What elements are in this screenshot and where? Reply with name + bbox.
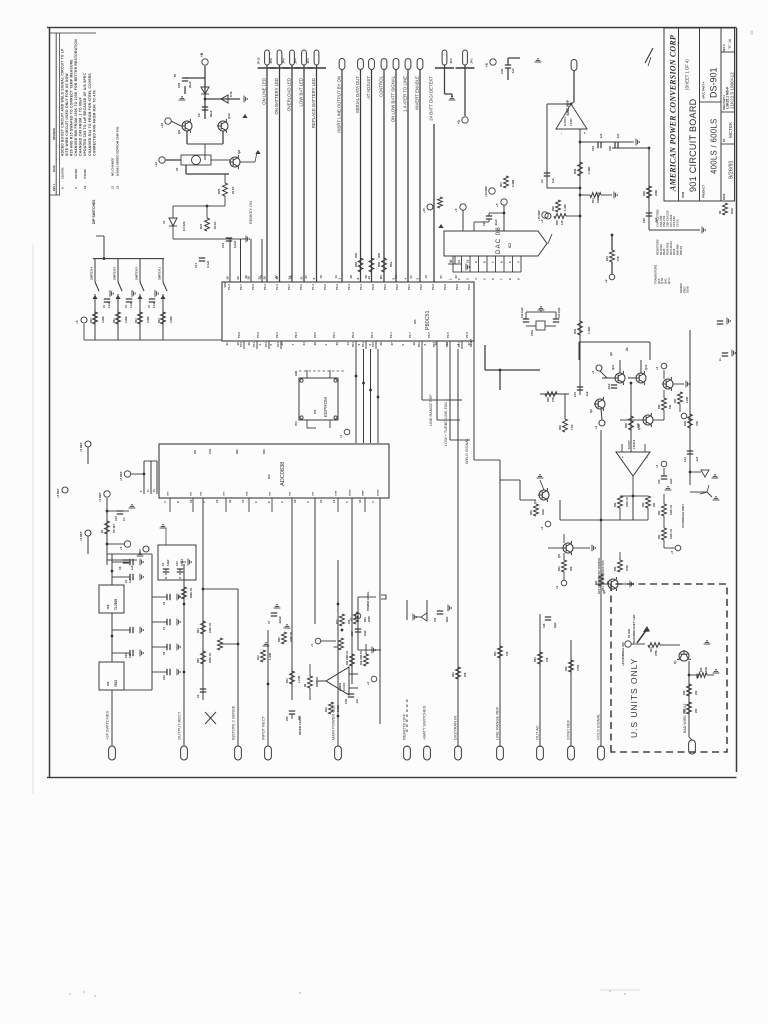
svg-text:VREF: VREF: [363, 490, 365, 496]
svg-text:3/27/90: 3/27/90: [74, 169, 78, 179]
svg-text:EEPROM: EEPROM: [323, 397, 328, 417]
svg-text:BY: BY: [723, 138, 726, 142]
svg-text:36: 36: [289, 275, 293, 279]
svg-text:.01uF: .01uF: [494, 219, 498, 226]
svg-text:+B: +B: [200, 52, 204, 57]
svg-text:Q1: Q1: [673, 660, 677, 664]
svg-text:CH1: CH1: [191, 491, 193, 496]
svg-text:C42: C42: [434, 617, 437, 622]
svg-text:ADDED BOOST CIRCUIT AND WELD S: ADDED BOOST CIRCUIT AND WELD SIGNAL CIRC…: [61, 48, 65, 156]
svg-text:1/4 IC4: 1/4 IC4: [563, 117, 567, 126]
svg-text:12: 12: [115, 185, 119, 189]
svg-text:R36: R36: [555, 220, 559, 225]
svg-text:R36: R36: [551, 206, 555, 211]
svg-text:28: 28: [379, 342, 383, 346]
svg-text:R39: R39: [558, 425, 562, 430]
svg-text:R23: R23: [565, 666, 568, 671]
svg-text:40K: 40K: [570, 566, 573, 571]
svg-text:C2 C6: C2 C6: [676, 219, 680, 227]
svg-text:R61: R61: [494, 651, 497, 656]
svg-text:1.43K: 1.43K: [563, 204, 567, 211]
svg-text:+5: +5: [540, 526, 544, 530]
svg-text:JP-8: JP-8: [269, 58, 273, 64]
svg-text:+5 RET: +5 RET: [98, 492, 102, 502]
svg-text:IC3: IC3: [267, 474, 271, 479]
svg-text:19: 19: [228, 499, 232, 503]
svg-text:R33: R33: [642, 502, 645, 507]
svg-text:P3.0: P3.0: [418, 341, 421, 347]
svg-text:Q7-C: Q7-C: [667, 278, 671, 284]
svg-text:OUT AC: OUT AC: [534, 725, 539, 740]
svg-text:37: 37: [467, 342, 471, 346]
svg-text:1.4 ATER TO LINE: 1.4 ATER TO LINE: [402, 76, 407, 112]
svg-text:CHANGED C49 FROM .1 TO 68uF: CHANGED C49 FROM .1 TO 68uF: [79, 97, 83, 156]
svg-text:27: 27: [274, 275, 278, 279]
svg-text:Q3: Q3: [589, 409, 593, 413]
svg-text:LT1014: LT1014: [632, 439, 636, 449]
svg-text:R1: R1: [100, 529, 104, 533]
svg-text:30: 30: [263, 276, 267, 280]
svg-text:22uF: 22uF: [364, 630, 367, 636]
svg-text:R26: R26: [683, 421, 687, 426]
svg-text:LOW + TURBO LINE FAIL: LOW + TURBO LINE FAIL: [444, 401, 448, 446]
svg-text:+5 REF: +5 REF: [119, 471, 123, 481]
svg-text:68uF: 68uF: [446, 616, 449, 622]
svg-text:+5 RET: +5 RET: [79, 442, 83, 452]
svg-text:B(STOR) 2 SENSE: B(STOR) 2 SENSE: [231, 705, 236, 740]
svg-text:4.75K: 4.75K: [577, 664, 580, 671]
svg-text:SWITCH 1: SWITCH 1: [158, 266, 162, 279]
svg-text:C23: C23: [176, 561, 179, 566]
svg-text:13: 13: [334, 275, 338, 279]
svg-text:R61: R61: [389, 261, 393, 267]
svg-text:20K: 20K: [695, 690, 698, 695]
svg-text:Q10: Q10: [227, 113, 231, 119]
svg-text:P2.1: P2.1: [362, 341, 365, 347]
svg-text:APCC PART #: APCC PART #: [702, 81, 706, 99]
svg-text:10K: 10K: [669, 404, 672, 409]
svg-text:P3.4: P3.4: [263, 284, 267, 290]
svg-text:R31: R31: [658, 534, 661, 539]
svg-text:38: 38: [313, 342, 317, 346]
svg-text:100K 1%: 100K 1%: [209, 622, 212, 633]
svg-text:15K: 15K: [348, 619, 351, 624]
svg-text:P2.1: P2.1: [407, 284, 411, 290]
svg-text:R32: R32: [614, 502, 617, 507]
svg-text:1uF: 1uF: [129, 653, 132, 658]
svg-text:33pF: 33pF: [554, 622, 557, 628]
svg-text:0.1: 0.1: [122, 517, 126, 521]
svg-text:P2.2: P2.2: [294, 332, 298, 338]
svg-text:P2.6: P2.6: [455, 284, 459, 290]
svg-text:COM: COM: [336, 491, 338, 496]
svg-text:S200ES: S200ES: [679, 283, 683, 293]
svg-text:+5: +5: [495, 203, 499, 207]
svg-text:4.99K: 4.99K: [147, 316, 150, 323]
svg-text:33: 33: [335, 342, 339, 346]
svg-text:20K: 20K: [377, 253, 381, 258]
svg-text:+5: +5: [454, 208, 458, 212]
svg-text:R66: R66: [354, 261, 358, 267]
svg-text:C49: C49: [163, 675, 166, 680]
svg-text:JP-10: JP-10: [257, 57, 261, 64]
svg-text:19: 19: [215, 499, 219, 503]
svg-text:-: -: [559, 133, 563, 134]
svg-text:21K22.5 1990A12: 21K22.5 1990A12: [730, 72, 735, 109]
svg-text:IC5: IC5: [313, 409, 317, 414]
svg-text:P3.3: P3.3: [351, 332, 355, 338]
svg-text:464K: 464K: [542, 509, 545, 515]
svg-text:R60: R60: [452, 672, 455, 677]
svg-text:CH5: CH5: [270, 491, 272, 496]
svg-text:P1.6: P1.6: [465, 332, 469, 338]
svg-text:IC1: IC1: [413, 319, 417, 324]
svg-text:OVERLOAD LED: OVERLOAD LED: [286, 78, 291, 111]
svg-text:REV #: REV #: [53, 183, 56, 191]
svg-text:R40: R40: [573, 328, 577, 334]
svg-text:R4A: R4A: [325, 707, 328, 712]
svg-text:+5: +5: [670, 550, 674, 554]
svg-text:909K 1%: 909K 1%: [190, 587, 193, 598]
svg-text:P3.5: P3.5: [467, 284, 471, 290]
svg-text:+5: +5: [75, 320, 79, 324]
svg-text:RESISTORS: RESISTORS: [656, 239, 660, 255]
svg-text:20K: 20K: [695, 708, 698, 713]
svg-text:R23: R23: [650, 647, 653, 652]
svg-text:UPDATED C65 TO.1uF BECAUSE OF: UPDATED C65 TO.1uF BECAUSE OF A/S SPEC: [83, 73, 87, 156]
svg-text:9/26/91: 9/26/91: [729, 160, 735, 179]
svg-text:11: 11: [457, 260, 461, 263]
svg-text:22.1K: 22.1K: [213, 222, 217, 229]
svg-text:DIG/TRAN IN: DIG/TRAN IN: [452, 716, 457, 740]
svg-text:DAC 08: DAC 08: [495, 226, 502, 254]
svg-text:1uF: 1uF: [130, 565, 134, 570]
svg-text:INPUT RECT: INPUT RECT: [261, 716, 266, 740]
svg-text:R12: R12: [257, 655, 260, 660]
svg-text:+2: +2: [594, 425, 598, 429]
svg-text:P3.7: P3.7: [427, 332, 431, 338]
svg-text:C16 10pF: C16 10pF: [521, 307, 524, 318]
svg-text:.1uF: .1uF: [599, 133, 603, 139]
svg-text:+BATT SWITCHES: +BATT SWITCHES: [421, 705, 426, 740]
svg-text:1/4 329: 1/4 329: [182, 221, 186, 231]
svg-text:.1uF: .1uF: [511, 68, 515, 74]
svg-text:OUTPUT RECT: OUTPUT RECT: [177, 711, 182, 740]
svg-text:0.1uF: 0.1uF: [131, 301, 133, 308]
svg-text:R12: R12: [286, 678, 289, 683]
svg-text:BAD WIRE FAULT: BAD WIRE FAULT: [683, 703, 687, 733]
svg-text:2.26K: 2.26K: [686, 396, 689, 403]
svg-text:+5: +5: [655, 464, 659, 468]
svg-text:35: 35: [280, 342, 284, 346]
svg-text:R13: R13: [591, 198, 595, 203]
svg-text:6.8uF: 6.8uF: [233, 240, 237, 248]
svg-text:P3.2: P3.2: [299, 284, 303, 290]
svg-text:R28: R28: [530, 510, 533, 515]
svg-text:28: 28: [364, 275, 368, 279]
svg-text:P1.0: P1.0: [240, 341, 243, 347]
svg-text:68uF: 68uF: [209, 110, 213, 117]
svg-text:+5: +5: [339, 434, 343, 438]
svg-text:P2.1: P2.1: [389, 332, 393, 338]
svg-text:1/4 IC4: 1/4 IC4: [342, 682, 346, 691]
svg-text:+12: +12: [154, 162, 158, 167]
svg-text:C13: C13: [114, 516, 118, 521]
svg-text:22uF: 22uF: [188, 81, 192, 88]
svg-text:P80C51: P80C51: [425, 311, 431, 330]
svg-text:.22uF: .22uF: [608, 383, 611, 390]
svg-text:Q3: Q3: [557, 554, 561, 558]
svg-text:18: 18: [293, 499, 297, 503]
svg-text:DATE: DATE: [53, 165, 56, 172]
svg-text:PRODUCT: PRODUCT: [702, 185, 706, 198]
svg-text:P0.4: P0.4: [359, 284, 363, 290]
svg-text:24: 24: [302, 342, 306, 346]
svg-text:LINE RANGE REF: LINE RANGE REF: [429, 394, 433, 426]
svg-text:REMOTE OFF: REMOTE OFF: [401, 713, 406, 740]
svg-text:CORRECTED R4N FROM R3K TO 47K: CORRECTED R4N FROM R3K TO 47K: [92, 89, 96, 156]
svg-text:P1.2: P1.2: [311, 284, 315, 290]
svg-text:220K 1%: 220K 1%: [290, 631, 293, 642]
svg-text:CONTROL: CONTROL: [378, 75, 383, 97]
svg-text:C28: C28: [608, 146, 612, 151]
svg-text:DIP SWITCHES: DIP SWITCHES: [92, 199, 96, 224]
svg-text:1.21M: 1.21M: [298, 676, 301, 683]
svg-text:VOLS SIGNAL: VOLS SIGNAL: [595, 713, 600, 740]
svg-text:REPLACE BATTERY LED: REPLACE BATTERY LED: [311, 78, 316, 128]
svg-text:R64: R64: [197, 628, 200, 633]
svg-text:R65: R65: [197, 658, 200, 663]
svg-text:MAIN POWER OUT: MAIN POWER OUT: [331, 704, 336, 740]
svg-text:CHANGED R14 TO FROM FOR STEEL: CHANGED R14 TO FROM FOR STEEL COVERS: [88, 73, 92, 156]
svg-text:ON LINE LED: ON LINE LED: [261, 78, 266, 105]
svg-text:DO: DO: [193, 450, 197, 454]
svg-text:Q4C: Q4C: [664, 278, 668, 284]
svg-text:20K: 20K: [464, 672, 467, 677]
svg-text:10K: 10K: [636, 423, 640, 428]
svg-text:0.1uF: 0.1uF: [154, 301, 156, 308]
svg-text:R29: R29: [624, 423, 628, 428]
svg-text:TL7805: TL7805: [114, 599, 118, 610]
svg-text:P2.0: P2.0: [275, 332, 279, 338]
svg-text:C12: C12: [351, 631, 354, 636]
svg-text:301K: 301K: [731, 208, 734, 214]
svg-text:.1uF: .1uF: [616, 133, 620, 139]
svg-text:232K 1%: 232K 1%: [209, 652, 212, 663]
svg-text:12: 12: [449, 259, 453, 263]
svg-text:1.32M: 1.32M: [269, 653, 272, 660]
svg-text:LT347: LT347: [569, 118, 573, 126]
svg-text:LINE RANGE REF: LINE RANGE REF: [494, 706, 499, 740]
svg-text:P2.6: P2.6: [443, 284, 447, 290]
svg-text:"BAD WIRE FAULT" LED: "BAD WIRE FAULT" LED: [633, 615, 636, 644]
svg-text:C9: C9: [197, 113, 201, 117]
svg-text:P3.5: P3.5: [313, 332, 317, 338]
svg-text:R27: R27: [674, 398, 677, 403]
svg-text:-: -: [645, 457, 649, 458]
svg-text:P3.4: P3.4: [370, 332, 374, 338]
svg-text:P2.0: P2.0: [352, 341, 355, 347]
svg-text:47K: 47K: [607, 580, 610, 585]
svg-text:+: +: [583, 132, 587, 134]
svg-text:R118: R118: [672, 248, 676, 255]
svg-text:7812: 7812: [114, 680, 118, 687]
svg-text:41K: 41K: [546, 657, 549, 662]
svg-text:28: 28: [445, 342, 449, 346]
svg-text:C64: C64: [125, 653, 128, 658]
svg-text:30: 30: [379, 275, 383, 279]
svg-text:+5: +5: [119, 546, 123, 550]
svg-text:13: 13: [241, 499, 245, 503]
svg-text:R55: R55: [614, 566, 617, 571]
svg-text:10: 10: [236, 342, 240, 346]
svg-text:D7: D7: [173, 73, 177, 77]
svg-text:475K: 475K: [655, 650, 658, 656]
svg-text:Z1: Z1: [175, 167, 179, 171]
svg-text:100K 1%: 100K 1%: [626, 496, 629, 507]
svg-text:Q6: Q6: [177, 130, 181, 134]
svg-text:JP-2: JP-2: [306, 58, 310, 64]
svg-text:C65: C65: [286, 716, 289, 721]
svg-text:R30: R30: [546, 397, 550, 402]
svg-text:R26: R26: [658, 404, 661, 409]
svg-text:Q9: Q9: [609, 352, 613, 356]
svg-text:28: 28: [244, 275, 248, 279]
svg-text:R24: R24: [199, 223, 203, 229]
svg-text:12/27/91: 12/27/91: [61, 167, 65, 179]
svg-text:C17: C17: [194, 262, 198, 268]
svg-text:R17: R17: [336, 619, 339, 624]
svg-text:C1A: C1A: [683, 457, 687, 462]
svg-text:P3.2: P3.2: [395, 284, 399, 290]
svg-text:+5: +5: [310, 643, 314, 647]
svg-text:CH2: CH2: [201, 491, 203, 496]
svg-text:P1.2: P1.2: [265, 341, 268, 347]
svg-text:R40: R40: [558, 566, 561, 571]
svg-text:P0.0: P0.0: [251, 284, 255, 290]
svg-text:1uF: 1uF: [129, 578, 132, 583]
svg-text:P1.5: P1.5: [446, 332, 450, 338]
svg-text:+15 REF: +15 REF: [484, 186, 488, 197]
svg-text:IC8: IC8: [106, 604, 110, 609]
svg-text:JP-1: JP-1: [470, 58, 474, 64]
svg-text:XTAL: XTAL: [530, 329, 534, 336]
svg-text:CH0: CH0: [168, 491, 170, 496]
svg-text:AMERICAN POWER CONVERSION CORP: AMERICAN POWER CONVERSION CORP: [669, 35, 678, 192]
svg-text:.022uF: .022uF: [279, 616, 282, 624]
svg-text:+24 NOMINAL ON: +24 NOMINAL ON: [621, 643, 625, 667]
svg-text:Q12: Q12: [644, 364, 648, 370]
svg-text:U1: U1: [162, 220, 166, 224]
svg-text:R39: R39: [642, 191, 646, 196]
svg-text:16: 16: [394, 275, 398, 279]
svg-text:200K: 200K: [368, 616, 371, 622]
svg-text:C30: C30: [500, 68, 504, 74]
svg-text:182K 1%: 182K 1%: [596, 192, 600, 203]
svg-text:SWITCH 3: SWITCH 3: [113, 266, 117, 279]
svg-text:C23: C23: [591, 146, 595, 151]
svg-text:P3.7: P3.7: [287, 284, 291, 290]
svg-text:1.33M: 1.33M: [337, 705, 340, 712]
svg-text:P3.6: P3.6: [237, 332, 241, 338]
svg-text:R22: R22: [595, 580, 598, 585]
svg-text:4.99K: 4.99K: [125, 316, 128, 323]
svg-text:28: 28: [349, 275, 353, 279]
svg-text:R50 R1: R50 R1: [679, 245, 683, 255]
svg-text:27K: 27K: [616, 256, 620, 261]
svg-text:CHANGED R66 FROM 150K TO 100K: CHANGED R66 FROM 150K TO 100K FOR BETTER…: [74, 39, 78, 156]
svg-text:"E" 16: "E" 16: [728, 39, 732, 49]
svg-text:15: 15: [319, 275, 323, 279]
svg-text:CLK: CLK: [208, 449, 212, 454]
svg-text:+5: +5: [485, 63, 489, 67]
svg-text:LOW BAT LED: LOW BAT LED: [298, 78, 303, 107]
svg-text:AT ADJUST: AT ADJUST: [366, 76, 371, 99]
svg-text:20K: 20K: [653, 502, 656, 507]
svg-text:18: 18: [358, 499, 362, 503]
svg-text:C20: C20: [642, 218, 646, 223]
svg-text:P1.2: P1.2: [227, 284, 231, 290]
svg-text:1/4 IC7: 1/4 IC7: [627, 440, 631, 449]
svg-text:R66: R66: [278, 637, 281, 642]
svg-text:26: 26: [226, 276, 230, 280]
svg-text:P3.0: P3.0: [323, 284, 327, 290]
svg-text:R37: R37: [499, 182, 503, 187]
svg-text:P2.5: P2.5: [372, 341, 375, 347]
svg-text:U.S UNITS ONLY: U.S UNITS ONLY: [629, 658, 639, 738]
svg-text:SITE WIRE CIRCUIT USED ONLY FO: SITE WIRE CIRCUIT USED ONLY FOR US NOW: [65, 73, 69, 156]
svg-text:+5: +5: [591, 370, 595, 374]
svg-text:GND: GND: [296, 371, 298, 376]
svg-text:DS-901: DS-901: [709, 67, 719, 98]
svg-text:C21: C21: [573, 392, 577, 397]
svg-text:474K: 474K: [626, 565, 629, 571]
svg-text:10: 10: [83, 185, 87, 189]
svg-text:2x: 2x: [625, 347, 629, 351]
svg-text:26: 26: [247, 342, 251, 346]
svg-text:JP-4: JP-4: [294, 58, 298, 64]
svg-text:C62-C54,C55: C62-C54,C55: [666, 210, 670, 227]
svg-text:R102-R23: R102-R23: [666, 242, 670, 255]
svg-text:5.6K: 5.6K: [705, 667, 708, 672]
svg-text:ON BATTERY LED: ON BATTERY LED: [274, 78, 279, 115]
svg-text:11: 11: [111, 185, 115, 189]
svg-text:P3.1: P3.1: [332, 332, 336, 338]
svg-text:INVERT ENABLE: INVERT ENABLE: [414, 76, 419, 110]
svg-text:DATE: DATE: [723, 193, 726, 200]
svg-text:R38: R38: [573, 168, 577, 174]
svg-text:.1uF: .1uF: [654, 217, 658, 223]
svg-text:10: 10: [319, 499, 323, 503]
svg-text:19: 19: [259, 275, 263, 279]
svg-text:REV A: REV A: [722, 44, 726, 52]
svg-text:0.49M: 0.49M: [511, 180, 515, 187]
svg-text:CH4: CH4: [246, 491, 249, 496]
svg-text:SYNC REF: SYNC REF: [565, 719, 570, 740]
svg-text:P1.7: P1.7: [408, 332, 412, 338]
svg-text:PC 464: PC 464: [112, 524, 116, 533]
svg-text:901 CIRCUIT BOARD: 901 CIRCUIT BOARD: [688, 98, 698, 192]
svg-text:27K: 27K: [551, 397, 555, 402]
svg-text:32: 32: [454, 275, 458, 279]
svg-text:13: 13: [424, 275, 428, 279]
svg-text:9/16/91 ADDED EEPROM CHIP E05: 9/16/91 ADDED EEPROM CHIP E05: [115, 126, 119, 176]
svg-text:19: 19: [189, 499, 193, 503]
svg-text:POWER LEVEL: POWER LEVEL: [366, 591, 370, 611]
svg-text:24 BATT DIGI DETEKT: 24 BATT DIGI DETEKT: [428, 76, 433, 121]
svg-text:+5: +5: [457, 120, 461, 124]
svg-text:243K: 243K: [654, 190, 658, 196]
